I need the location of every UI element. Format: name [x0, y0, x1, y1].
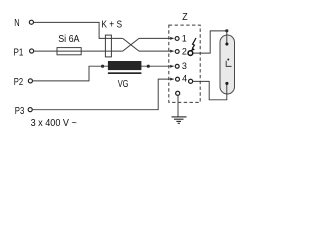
node P2 terminal [28, 79, 32, 83]
svg-text:P1: P1 [14, 48, 24, 59]
lamp bottom electrode [225, 82, 228, 85]
svg-text:4: 4 [182, 73, 187, 83]
wire P1 to fuse [34, 50, 57, 52]
svg-text:2: 2 [182, 46, 187, 56]
node N terminal [29, 20, 33, 24]
arrow into terminal 4 [170, 78, 174, 81]
node P3 terminal [28, 108, 32, 112]
switch K+S [105, 35, 111, 57]
igniter output circle (lamp top lead) [188, 51, 193, 56]
lamp top electrode [225, 42, 228, 45]
svg-text:1: 1 [182, 34, 187, 44]
wire N to switch [34, 22, 123, 38]
wire P2 to ballast [33, 66, 103, 81]
arrow into terminal 1 [170, 37, 174, 40]
svg-text:P3: P3 [15, 106, 25, 117]
node P1 terminal [30, 49, 34, 53]
lamp fill dot [227, 59, 229, 61]
igniter box Z (dashed) [169, 25, 200, 102]
junction dot VG right [147, 65, 150, 68]
svg-text:3 x 400 V ~: 3 x 400 V ~ [31, 118, 77, 129]
igniter output circle (lamp bottom lead) [189, 79, 193, 83]
svg-text:3: 3 [182, 61, 187, 71]
wire to terminal 1 [139, 37, 174, 39]
svg-text:P2: P2 [14, 77, 24, 88]
ignition pulse flash arrow [192, 38, 196, 49]
wire crossing X [123, 38, 139, 51]
fuse Si 6A [57, 48, 81, 55]
terminal 4 [176, 77, 180, 81]
svg-text:Z: Z [182, 12, 187, 23]
terminal 3 [175, 64, 179, 68]
junction dot top corner [225, 29, 228, 32]
svg-text:K + S: K + S [101, 20, 122, 31]
junction dot VG left [101, 65, 104, 68]
arrow into terminal 3 [170, 65, 174, 68]
svg-text:N: N [14, 18, 19, 29]
wire P3 to terminal 4 [32, 79, 173, 110]
wire lamp top lead [193, 31, 227, 53]
arrow into terminal 2 [170, 50, 174, 53]
terminal 2 [175, 50, 179, 54]
lamp envelope [220, 35, 235, 94]
ballast VG [108, 61, 141, 70]
wire to ground [177, 96, 179, 117]
wire to terminal 2 [139, 50, 174, 52]
terminal 1 [175, 37, 179, 41]
svg-text:Si 6A: Si 6A [58, 34, 80, 45]
wire lamp bottom lead [193, 81, 227, 99]
wire P1 fuse to crossing [81, 50, 123, 52]
earth terminal circle [176, 91, 180, 95]
svg-text:VG: VG [118, 79, 129, 90]
lamp fill mark [226, 61, 231, 67]
wire down into lamp top [226, 31, 228, 44]
wire VG to terminal 3 [103, 65, 174, 67]
ground [172, 116, 187, 118]
